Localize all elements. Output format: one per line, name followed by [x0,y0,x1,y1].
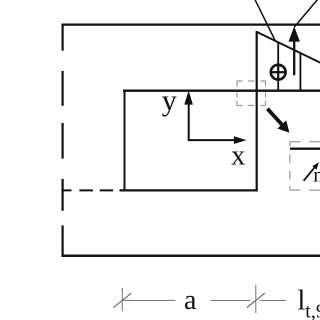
svg-text:x: x [231,141,245,172]
y axis [184,91,193,141]
force arrow F head [289,26,300,41]
bold crack arrow [267,109,289,133]
dimension tick right [247,293,265,308]
wire: outer left dashed edge [61,24,63,257]
dashed box (detail at right, cut by image edge) [290,142,320,190]
hole bottom edge [120,189,258,191]
stress triangle hatch line left (through circled plus) [277,42,279,90]
dashed square marker (crack initiation zone) [237,81,266,106]
svg-text:y: y [162,84,177,117]
stress triangle hatch line right [299,53,301,90]
dashed extension of hole bottom edge [62,189,113,191]
wire: outer bottom edge [62,254,320,257]
hole left edge [124,90,126,191]
small diagonal arrow (screw) [304,162,319,181]
dimension extension line right [255,285,257,313]
force arrow F shaft [293,41,295,76]
leader line A [254,0,275,41]
circled plus symbol [271,65,286,80]
wire: outer top edge [62,24,320,26]
leader line B [294,0,317,27]
stress triangle hypotenuse [257,32,320,63]
svg-text:a: a [184,285,197,316]
dimension extension line left [121,288,123,311]
hole top edge [123,90,320,92]
dimension line segments [122,299,286,301]
main vertical edge (triangle left side / hole right edge) [256,31,258,191]
svg-text:n: n [313,163,320,187]
plate line inside dashed box [290,148,320,150]
x axis [188,136,247,144]
dimension tick left [113,293,131,308]
